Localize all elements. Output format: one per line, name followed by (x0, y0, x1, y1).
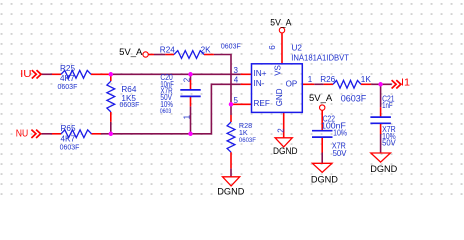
svg-text:DGND: DGND (217, 187, 244, 197)
svg-text:0603F: 0603F (341, 93, 367, 103)
svg-text:0603F: 0603F (60, 145, 80, 152)
svg-text:OP: OP (286, 80, 298, 89)
svg-text:2: 2 (276, 128, 285, 133)
svg-text:R65: R65 (61, 124, 76, 133)
svg-text:R25: R25 (60, 64, 75, 73)
svg-text:4K7: 4K7 (61, 135, 76, 144)
svg-text:5V_A: 5V_A (309, 93, 333, 104)
svg-text:0603: 0603 (160, 109, 172, 115)
svg-text:0603F: 0603F (120, 102, 140, 109)
svg-text:IN+: IN+ (254, 69, 267, 78)
svg-text:U2: U2 (292, 44, 303, 53)
svg-text:1: 1 (308, 75, 313, 84)
svg-text:1K: 1K (361, 75, 372, 84)
svg-text:5: 5 (233, 96, 238, 105)
svg-text:4K7: 4K7 (60, 74, 75, 83)
svg-text:2K: 2K (201, 45, 212, 54)
svg-text:5V_A: 5V_A (119, 47, 143, 58)
svg-text:0603F: 0603F (58, 84, 78, 91)
svg-text:2: 2 (183, 77, 192, 82)
svg-text:50V: 50V (382, 139, 396, 148)
svg-text:0603F: 0603F (221, 44, 241, 51)
svg-text:10%: 10% (333, 128, 347, 137)
svg-text:DGND: DGND (370, 164, 397, 174)
svg-text:R24: R24 (160, 45, 175, 54)
svg-text:REF: REF (254, 99, 270, 108)
svg-text:VS: VS (273, 65, 282, 76)
svg-text:6: 6 (268, 45, 277, 50)
svg-text:DGND: DGND (311, 175, 338, 185)
svg-text:1K: 1K (239, 128, 248, 137)
svg-text:3: 3 (233, 66, 238, 75)
svg-text:DGND: DGND (273, 146, 298, 156)
svg-text:10%: 10% (160, 100, 173, 109)
svg-text:5V_A: 5V_A (270, 18, 292, 29)
svg-text:0603F: 0603F (239, 138, 256, 144)
svg-text:GND: GND (275, 88, 284, 106)
svg-text:R26: R26 (320, 75, 335, 84)
svg-text:50V: 50V (333, 149, 347, 158)
svg-text:IU: IU (20, 69, 32, 80)
svg-text:4: 4 (234, 76, 239, 85)
svg-text:INA181A1IDBVT: INA181A1IDBVT (291, 52, 349, 62)
svg-text:1nF: 1nF (382, 101, 393, 110)
svg-text:NU: NU (16, 129, 28, 140)
svg-text:I1: I1 (401, 78, 410, 89)
svg-text:IN-: IN- (254, 79, 265, 88)
svg-text:1: 1 (183, 114, 192, 119)
